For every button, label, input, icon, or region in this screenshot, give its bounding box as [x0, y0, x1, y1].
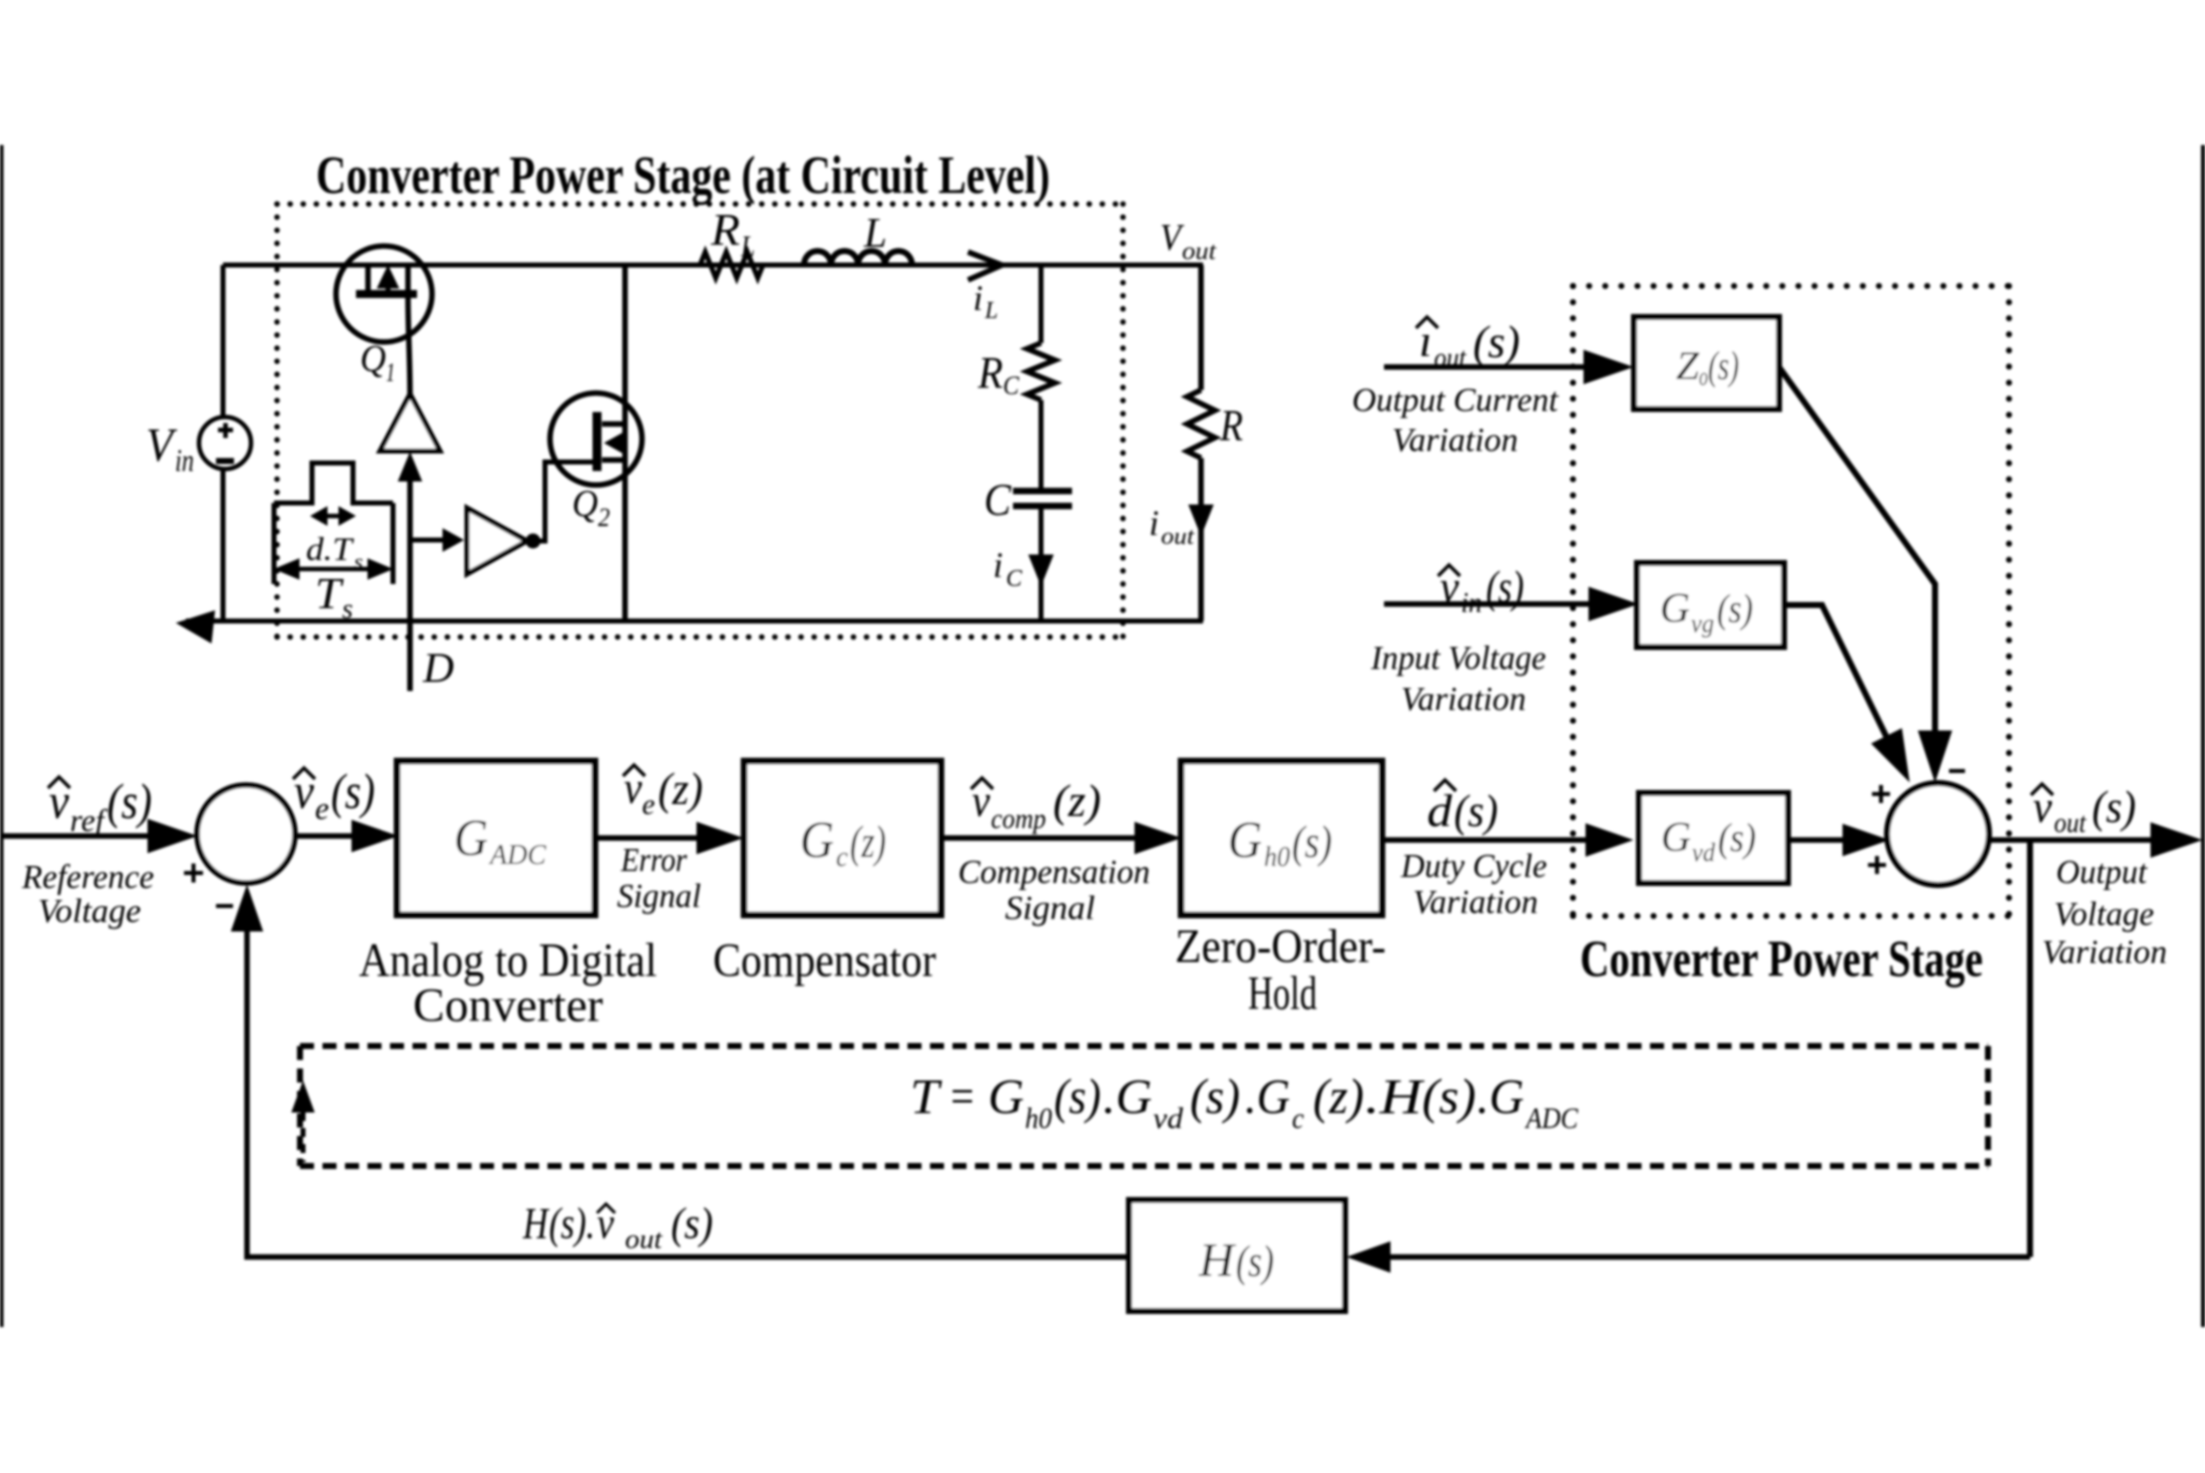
svg-text:.G: .G [1103, 1068, 1152, 1124]
Q1 internals: channel bar [356, 290, 417, 298]
svg-text:Compensator: Compensator [713, 934, 936, 987]
svg-text:(z): (z) [1053, 775, 1101, 826]
svg-text:(s): (s) [1708, 343, 1739, 388]
svg-text:(z): (z) [850, 816, 886, 867]
svg-text:out: out [1182, 238, 1217, 265]
svg-text:Output: Output [2056, 854, 2148, 891]
svg-text:e: e [642, 788, 655, 821]
svg-text:Voltage: Voltage [2054, 896, 2154, 933]
vin(s) input line [1384, 601, 1593, 607]
plus sign (top left of junction 2) [1872, 785, 1890, 803]
svg-text:C: C [984, 474, 1012, 525]
page right border mark [2201, 145, 2205, 1327]
svg-text:(s): (s) [1454, 785, 1498, 836]
svg-text:ADC: ADC [1524, 1102, 1579, 1135]
svg-text:G: G [454, 810, 488, 867]
svg-text:vd: vd [1153, 1102, 1184, 1135]
svg-text:(s).: (s). [549, 1199, 595, 1248]
svg-text:s: s [342, 594, 353, 625]
iL current arrow on wire (chevron) [968, 252, 1002, 280]
svg-text:Variation: Variation [2042, 934, 2167, 971]
svg-text:Converter Power Stage (at Circ: Converter Power Stage (at Circuit Level) [316, 145, 1050, 205]
svg-text:Compensation: Compensation [958, 854, 1150, 891]
resistor RL (inductor series resistance) [700, 252, 763, 278]
svg-text:(s): (s) [1486, 561, 1524, 612]
svg-text:2: 2 [598, 503, 610, 532]
voltage source Vin circle [199, 417, 251, 469]
transistor Q1 (high-side MOSFET) circle [336, 246, 432, 342]
svg-text:R: R [710, 204, 740, 255]
Q1 internals: body arrow up [386, 282, 391, 290]
svg-text:out: out [1161, 524, 1195, 550]
Ts span dimension line with outward arrowheads [286, 567, 381, 572]
wire: phase node vertical (Q2 drain-source path) [622, 265, 628, 621]
iout(s) input line [1384, 364, 1588, 370]
inverter buffer triangle (points right) driving Q2 [467, 508, 527, 574]
dotted box around converter power stage circuit [277, 204, 1123, 637]
svg-text:G: G [1661, 815, 1691, 861]
Q2 internals: source tab with arrow [602, 457, 625, 463]
svg-text:d: d [1427, 785, 1453, 836]
PWM pulse waveform symbol [274, 463, 393, 503]
block Zo(s) [1634, 317, 1779, 409]
svg-text:(s): (s) [1718, 815, 1756, 860]
svg-text:Variation: Variation [1401, 681, 1526, 718]
svg-text:L: L [740, 230, 755, 263]
svg-text:Q: Q [360, 338, 386, 380]
Vin plus sign [218, 423, 233, 438]
svg-text:H: H [522, 1199, 550, 1248]
reference input line vref [3, 833, 152, 839]
plus sign (bottom left of junction 2) [1868, 856, 1886, 874]
svg-text:Z: Z [1676, 343, 1700, 388]
svg-text:(s): (s) [1717, 586, 1753, 631]
svg-text:T: T [910, 1068, 942, 1124]
line ve(z) into compensator [595, 835, 700, 841]
line vcomp(z) into zero-order-hold [941, 835, 1140, 841]
svg-text:(s): (s) [1236, 1237, 1274, 1286]
Q1 internals: gate lead down to driver triangle [408, 265, 410, 396]
svg-text:.G: .G [1477, 1068, 1524, 1124]
dashed box for loop gain T [300, 1046, 1988, 1166]
feedback wire from H(s) to summing junction 1 [247, 928, 1129, 1257]
svg-text:h0: h0 [1264, 842, 1290, 873]
block Gc(z): Compensator [744, 761, 941, 915]
iC current arrow down [1029, 555, 1053, 585]
block GADC: Analog to Digital Converter [397, 761, 595, 915]
svg-text:vg: vg [1691, 609, 1714, 638]
wire: bottom rail [186, 619, 1203, 624]
svg-text:.G: .G [1245, 1068, 1290, 1124]
svg-text:out: out [625, 1224, 664, 1254]
svg-text:v: v [294, 763, 315, 819]
svg-text:C: C [1006, 566, 1023, 592]
svg-text:Q: Q [572, 483, 598, 525]
svg-text:(s): (s) [107, 773, 152, 829]
svg-text:Signal: Signal [1005, 890, 1095, 927]
svg-text:v: v [1440, 561, 1460, 612]
wire: output node branch down (RC/C leg) [1039, 265, 1044, 621]
svg-text:(s): (s) [1292, 816, 1332, 867]
svg-text:(s): (s) [671, 1199, 713, 1248]
iout current arrow down [1189, 505, 1213, 535]
error line ve(s) [295, 833, 352, 839]
svg-text:Voltage: Voltage [38, 893, 141, 930]
wire from Zo(s) diagonally down to summing junction [1779, 367, 1935, 734]
output line vout(s) [1989, 837, 2155, 843]
svg-text:Hold: Hold [1248, 967, 1317, 1020]
svg-text:V: V [146, 419, 177, 472]
Q2 internals: gate bar vertical [593, 412, 602, 471]
svg-text:H: H [1198, 1234, 1236, 1287]
svg-text:(s): (s) [331, 763, 375, 819]
svg-text:Duty Cycle: Duty Cycle [1400, 848, 1547, 885]
D drive line with up arrowhead into triangle [399, 453, 422, 481]
arrowhead at left end of bottom rail [177, 611, 215, 643]
inductor L [804, 251, 912, 265]
line from Gvd into summing junction 2 [1788, 837, 1845, 843]
svg-text:e: e [315, 790, 329, 826]
svg-text:G: G [988, 1068, 1024, 1124]
svg-text:Zero-Order-: Zero-Order- [1175, 920, 1386, 973]
svg-text:v: v [49, 773, 70, 829]
svg-text:d.T: d.T [306, 532, 355, 568]
wire from buffer output up to Q2 gate [533, 462, 593, 541]
svg-text:ref: ref [70, 802, 108, 838]
svg-text:vd: vd [1692, 838, 1716, 867]
wire: left vertical from top rail to Vin source [221, 265, 226, 418]
svg-text:(z): (z) [658, 763, 703, 814]
svg-text:h0: h0 [1025, 1102, 1052, 1135]
minus sign (top right of junction 2) [1949, 769, 1965, 773]
minus sign at summing junction 1 [216, 904, 233, 908]
svg-text:.H: .H [1365, 1068, 1425, 1124]
svg-text:Output Current: Output Current [1352, 382, 1560, 419]
Q1 internals: left tab [365, 265, 371, 292]
plus sign at summing junction 1 [184, 864, 203, 883]
Vin minus sign [216, 458, 234, 464]
junction dot at buffer output [526, 534, 540, 548]
wire: Vin source to bottom rail [221, 468, 226, 621]
summing junction 1 [197, 785, 295, 883]
svg-text:i: i [993, 545, 1003, 585]
block Gvd(s) [1639, 793, 1788, 883]
svg-text:=: = [948, 1068, 976, 1124]
svg-text:T: T [315, 569, 345, 618]
svg-text:(s): (s) [1190, 1068, 1240, 1124]
dotted box: converter power stage (block level) [1573, 286, 2009, 916]
block Gvg(s) [1637, 563, 1784, 647]
svg-text:i: i [973, 278, 983, 318]
svg-text:R: R [977, 348, 1003, 398]
svg-text:(s): (s) [2092, 781, 2136, 832]
d.Ts width arrow (double-headed) inside pulse [319, 514, 347, 519]
page left border mark [0, 145, 4, 1327]
svg-text:(s): (s) [1473, 316, 1520, 367]
feedback wire into H(s) [1390, 1254, 2030, 1260]
resistor RC (cap ESR) [1027, 343, 1055, 400]
svg-text:D: D [422, 646, 454, 692]
svg-text:G: G [1660, 586, 1690, 632]
svg-text:Error: Error [620, 842, 688, 879]
svg-text:(s): (s) [1054, 1068, 1101, 1124]
svg-text:G: G [1228, 812, 1262, 869]
svg-text:out: out [2054, 808, 2087, 839]
block Gh0(s): Zero-Order-Hold [1181, 761, 1382, 915]
svg-text:L: L [984, 298, 998, 324]
wire: load branch vertical [1198, 265, 1204, 621]
svg-text:(z): (z) [1313, 1068, 1364, 1124]
svg-text:Converter Power Stage: Converter Power Stage [1580, 931, 1983, 988]
svg-text:comp: comp [991, 804, 1046, 835]
block H(s) [1129, 1200, 1345, 1311]
svg-text:(s): (s) [1422, 1068, 1476, 1124]
branch from D line to inverter buffer [410, 538, 445, 543]
svg-text:L: L [863, 211, 887, 257]
svg-text:R: R [1219, 401, 1243, 450]
feedback tap line down from output [2027, 841, 2033, 1257]
svg-text:Input Voltage: Input Voltage [1370, 640, 1546, 677]
svg-text:in: in [175, 442, 194, 478]
Q2 internals: drain tab [602, 421, 625, 427]
summing junction 2 [1887, 783, 1989, 885]
wire: top rail from Vin to R load branch [223, 263, 1203, 268]
line d(s) into Gvd [1382, 837, 1590, 843]
transistor Q2 (low-side MOSFET) circle [550, 393, 642, 485]
svg-text:Variation: Variation [1413, 884, 1538, 921]
svg-text:c: c [836, 842, 849, 873]
svg-text:i: i [1149, 503, 1159, 543]
capacitor C plates [1013, 491, 1072, 506]
svg-text:C: C [1003, 371, 1020, 400]
svg-text:G: G [800, 812, 834, 869]
svg-text:Signal: Signal [617, 878, 701, 915]
svg-text:Variation: Variation [1392, 422, 1518, 459]
svg-text:out: out [1434, 343, 1467, 374]
svg-text:c: c [1292, 1102, 1304, 1135]
gate driver triangle (points up) for Q1 [380, 394, 440, 451]
svg-text:ADC: ADC [488, 840, 546, 871]
svg-text:1: 1 [386, 358, 395, 387]
svg-text:V: V [1160, 217, 1184, 259]
svg-text:o: o [1699, 362, 1708, 391]
dashed up-arrow inside loop box [292, 1082, 314, 1112]
wire from Gvg(s) to summing junction (diagonal) [1784, 605, 1888, 740]
resistor R (load) [1187, 390, 1215, 458]
svg-text:Reference: Reference [21, 859, 154, 896]
svg-text:in: in [1461, 588, 1482, 619]
svg-text:Converter: Converter [413, 979, 603, 1032]
